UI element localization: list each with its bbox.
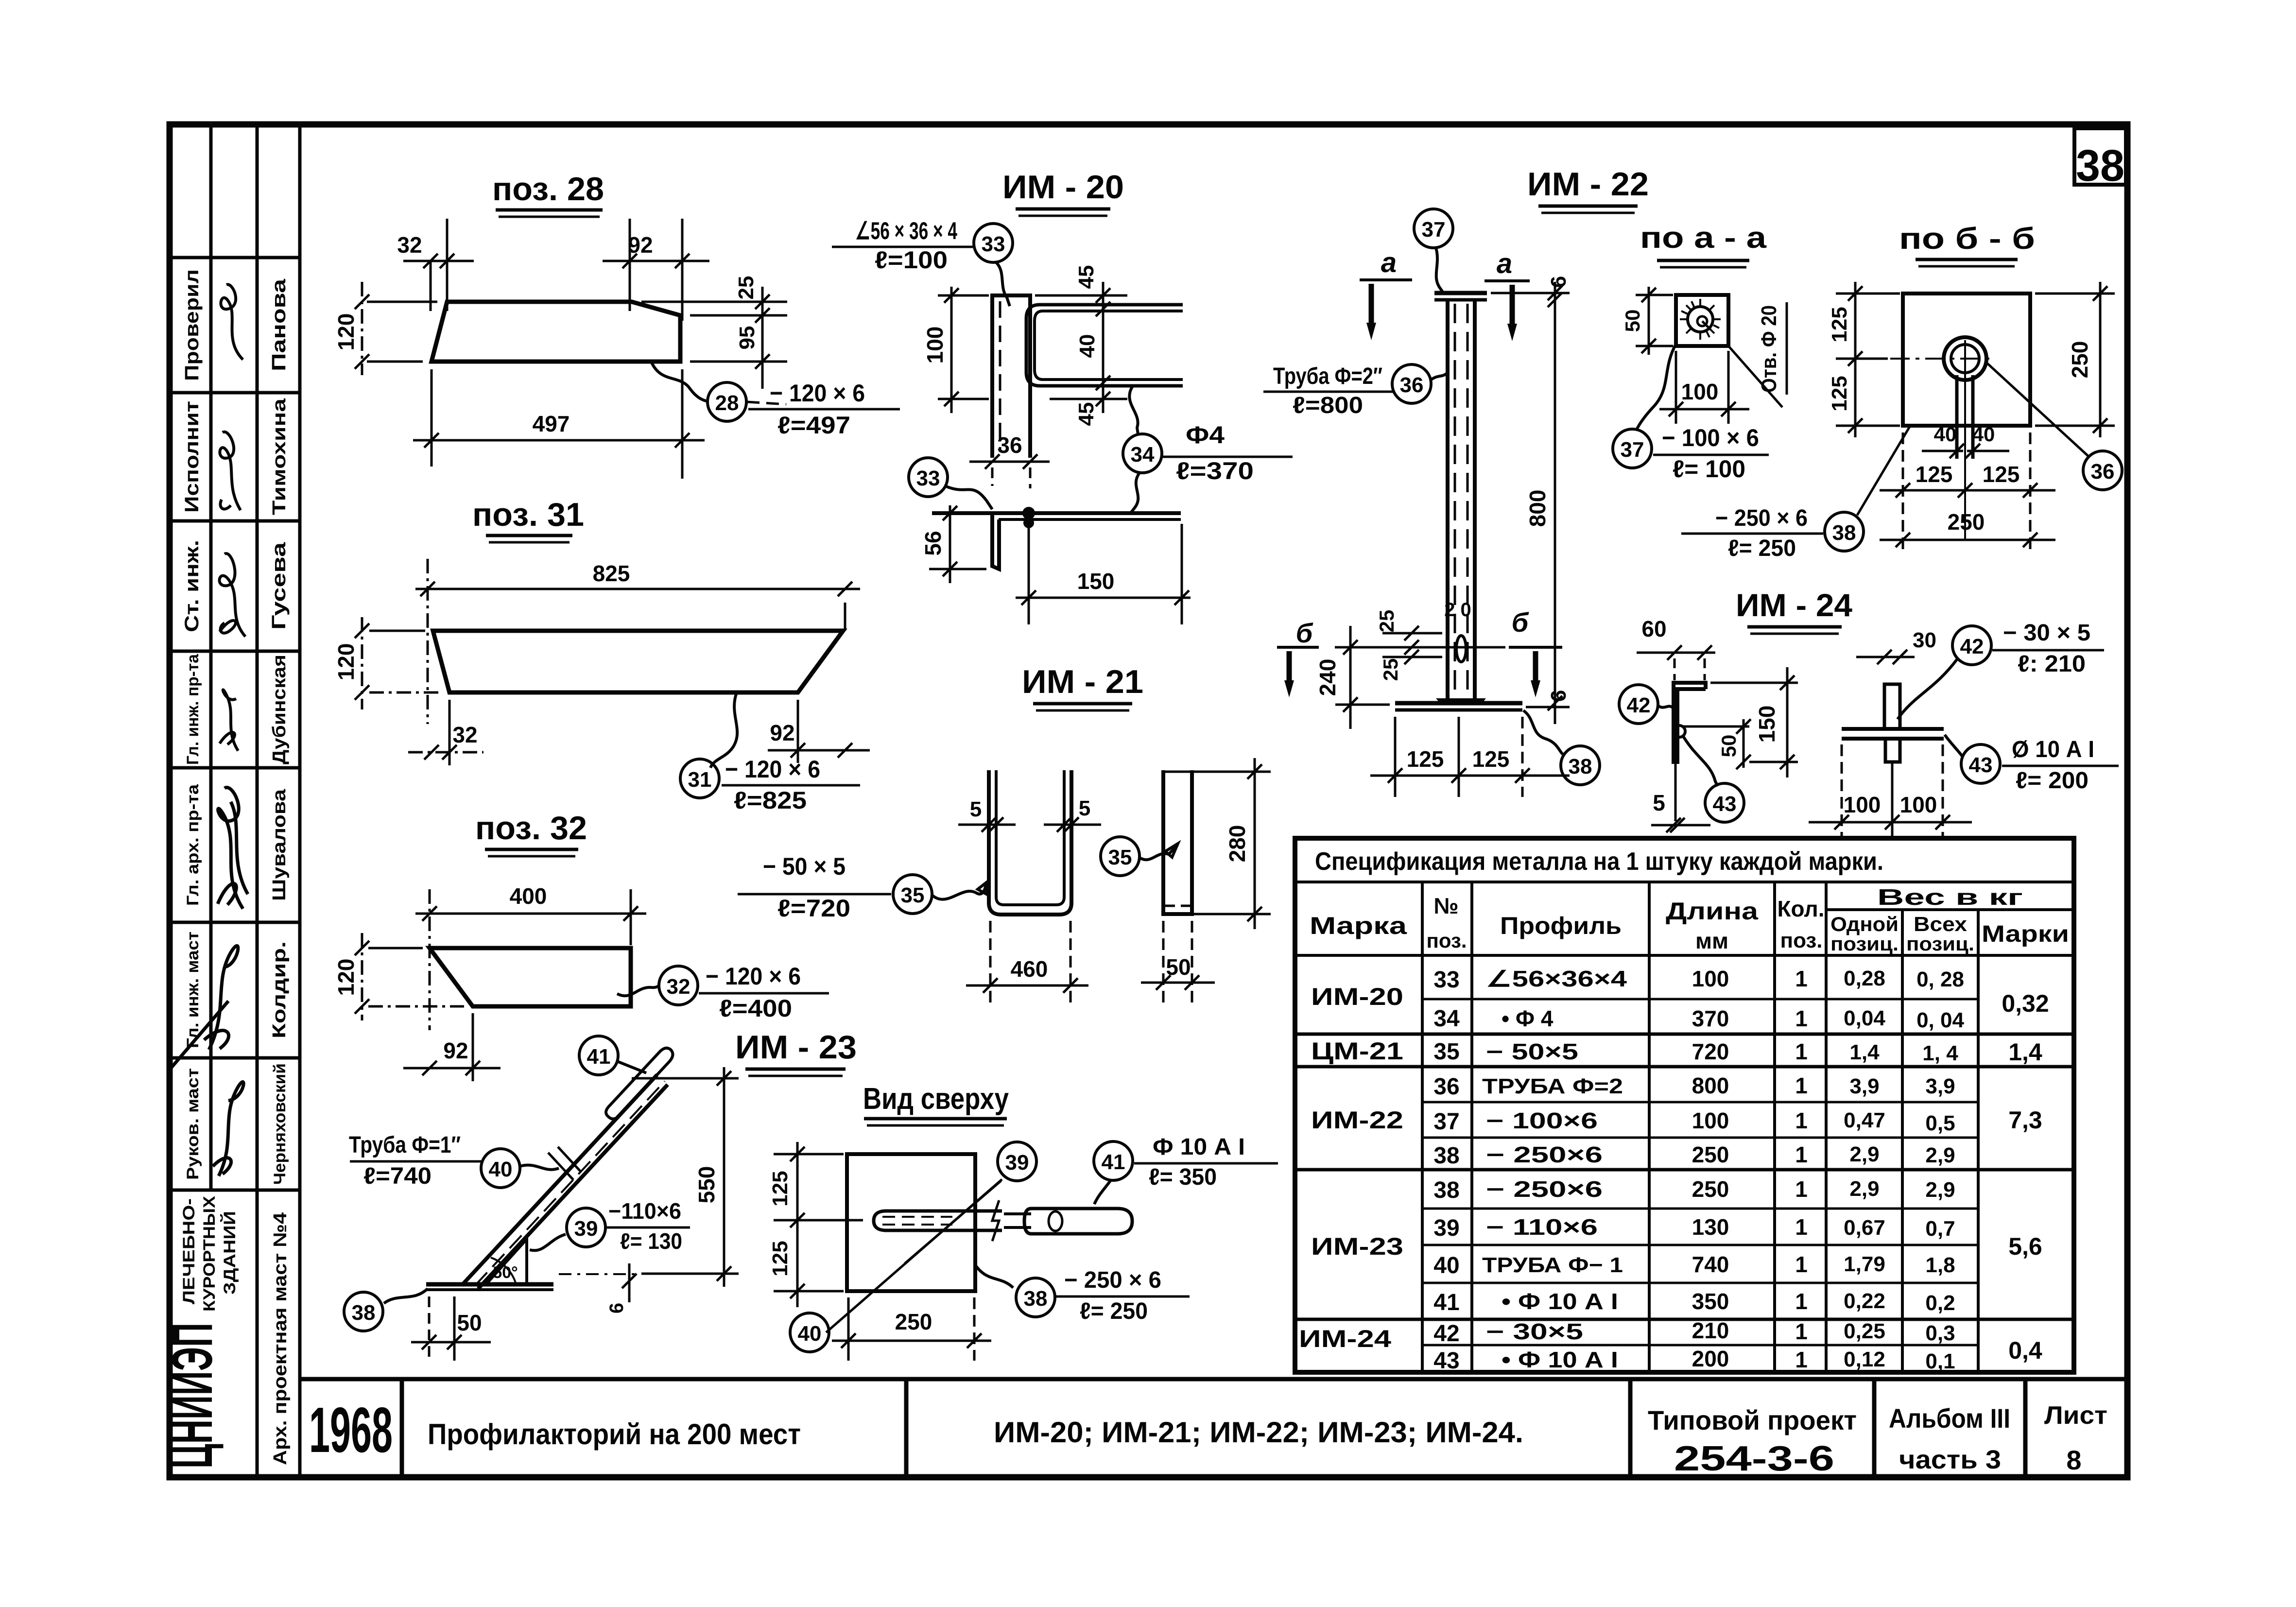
- svg-text:• Ф 4: • Ф 4: [1502, 1006, 1554, 1031]
- signature Тимохина: [220, 432, 241, 510]
- IM-24 callout 42 right with label: [1952, 626, 1991, 665]
- title block grid: [300, 1379, 2127, 1477]
- svg-text:25: 25: [1379, 658, 1402, 681]
- IM-23 callout 39 with label: [567, 1208, 605, 1247]
- svg-text:460: 460: [1011, 956, 1048, 982]
- signature Гусева: [220, 553, 245, 637]
- poz.28 plate outline: [432, 302, 680, 362]
- svg-text:100: 100: [1692, 966, 1729, 991]
- po b-b dim 250 right: [2099, 282, 2102, 437]
- svg-text:800: 800: [1692, 1073, 1729, 1098]
- svg-text:45: 45: [1074, 265, 1098, 289]
- svg-text:37: 37: [1433, 1109, 1459, 1135]
- svg-text:0,1: 0,1: [1925, 1349, 1955, 1373]
- svg-text:ТРУБА Ф=2: ТРУБА Ф=2: [1482, 1074, 1623, 1098]
- svg-text:часть 3: часть 3: [1899, 1445, 2001, 1474]
- svg-text:1: 1: [1795, 1108, 1808, 1133]
- svg-text:60: 60: [1641, 616, 1666, 641]
- svg-text:ℓ= 200: ℓ= 200: [2016, 768, 2089, 794]
- svg-text:120: 120: [333, 643, 359, 681]
- IM-24 weld dot and callout 43 left: [1674, 726, 1685, 737]
- svg-text:42: 42: [1433, 1321, 1459, 1347]
- svg-text:Альбом III: Альбом III: [1889, 1403, 2010, 1434]
- svg-text:ℓ= 130: ℓ= 130: [620, 1228, 682, 1254]
- IM-20 wire U (Ф4): [1026, 305, 1183, 386]
- signature: [170, 946, 238, 1069]
- svg-text:Длина: Длина: [1666, 898, 1759, 925]
- top view pipe: [884, 1210, 1002, 1213]
- IM-23 dim 550: [723, 1067, 725, 1287]
- svg-text:Марки: Марки: [1982, 921, 2069, 947]
- svg-text:1: 1: [1795, 1214, 1808, 1240]
- po b-b rod: [1955, 375, 1959, 459]
- svg-text:Ø 10 А I: Ø 10 А I: [2012, 737, 2094, 762]
- svg-text:40: 40: [489, 1158, 513, 1181]
- svg-text:Гусева: Гусева: [268, 542, 290, 630]
- svg-text:Марка: Марка: [1310, 912, 1408, 939]
- svg-text:250: 250: [895, 1309, 932, 1334]
- IM-20 callout 33 lower: [909, 458, 948, 497]
- pipe break marks: [992, 1200, 999, 1241]
- svg-text:ЛЕЧЕБНО-: ЛЕЧЕБНО-: [180, 1198, 198, 1304]
- svg-text:0, 04: 0, 04: [1916, 1008, 1964, 1032]
- poz.31 dim 120 left: [361, 617, 363, 709]
- svg-text:40: 40: [1972, 423, 1995, 446]
- svg-text:ЦНИИЭП: ЦНИИЭП: [160, 1323, 224, 1469]
- weld dot: [1022, 507, 1035, 519]
- svg-text:42: 42: [1960, 635, 1984, 658]
- svg-text:33: 33: [982, 232, 1005, 256]
- svg-text:ℓ= 100: ℓ= 100: [1673, 455, 1745, 483]
- svg-text:150: 150: [1077, 569, 1115, 594]
- svg-text:Панова: Панова: [268, 278, 290, 371]
- svg-text:125: 125: [1916, 462, 1953, 487]
- svg-text:50°: 50°: [493, 1263, 518, 1282]
- svg-text:Исполнит: Исполнит: [181, 401, 203, 513]
- top view dims 125/125 left: [796, 1142, 799, 1307]
- svg-text:34: 34: [1131, 443, 1155, 467]
- svg-text:0,3: 0,3: [1925, 1321, 1955, 1345]
- svg-text:39: 39: [1433, 1215, 1459, 1241]
- svg-text:43: 43: [1713, 792, 1737, 816]
- po a-a label Отв Ф20: [1728, 346, 1782, 407]
- svg-text:− 250 × 6: − 250 × 6: [1064, 1267, 1161, 1293]
- svg-text:Спецификация металла на 1: Спецификация металла на 1 штуку каждой м…: [1315, 847, 1883, 876]
- IM-23 rod 41 at top: [606, 1048, 673, 1119]
- svg-text:35: 35: [1108, 846, 1132, 869]
- svg-text:28: 28: [715, 391, 739, 415]
- svg-text:350: 350: [1692, 1289, 1729, 1314]
- svg-text:100: 100: [922, 327, 948, 364]
- IM-20 dim 56: [949, 505, 951, 583]
- svg-text:254-3-6: 254-3-6: [1674, 1439, 1834, 1478]
- svg-text:250: 250: [2067, 341, 2092, 379]
- svg-text:0,7: 0,7: [1925, 1217, 1955, 1241]
- svg-text:40: 40: [1075, 334, 1099, 358]
- svg-text:100: 100: [1681, 379, 1719, 404]
- svg-text:− 100 × 6: − 100 × 6: [1662, 424, 1759, 451]
- po b-b centerlines: [1890, 358, 1995, 360]
- svg-text:37: 37: [1621, 438, 1644, 462]
- top view leader diagonals: [826, 1179, 1002, 1332]
- svg-text:ℓ=825: ℓ=825: [734, 787, 807, 814]
- top view callout 40: [790, 1313, 829, 1352]
- svg-text:позиц.: позиц.: [1906, 933, 1974, 955]
- svg-text:240: 240: [1315, 659, 1340, 696]
- svg-text:35: 35: [901, 883, 925, 907]
- svg-text:1: 1: [1795, 1176, 1808, 1202]
- svg-text:25: 25: [734, 276, 758, 300]
- svg-text:1: 1: [1795, 1289, 1808, 1314]
- svg-text:по а - а: по а - а: [1640, 221, 1767, 255]
- svg-text:497: 497: [533, 411, 570, 436]
- svg-text:25: 25: [1375, 610, 1398, 633]
- svg-text:38: 38: [1433, 1177, 1459, 1203]
- svg-text:Ф4: Ф4: [1186, 421, 1225, 449]
- svg-text:№: №: [1433, 893, 1458, 918]
- svg-text:41: 41: [1102, 1150, 1125, 1174]
- poz.32 dim 120 left: [361, 933, 363, 1020]
- svg-text:5,6: 5,6: [2008, 1233, 2042, 1260]
- leader from 35 to channel: [932, 883, 989, 899]
- svg-text:ИМ-24: ИМ-24: [1299, 1325, 1391, 1352]
- svg-text:250: 250: [1692, 1142, 1729, 1167]
- svg-text:38: 38: [1832, 521, 1856, 545]
- po a-a weld circle with rays: [1688, 307, 1713, 332]
- svg-text:ℓ= 250: ℓ= 250: [1080, 1298, 1148, 1324]
- IM-23 angle 50deg: [491, 1258, 516, 1284]
- svg-text:б: б: [1512, 607, 1529, 638]
- svg-text:мм: мм: [1695, 928, 1728, 953]
- svg-text:1,4: 1,4: [2008, 1038, 2042, 1066]
- svg-text:0,25: 0,25: [1844, 1319, 1885, 1343]
- table row lines (partial): [1422, 999, 1978, 1345]
- poz.32 plate outline: [430, 948, 631, 1006]
- svg-text:Арх. проектная маст №4: Арх. проектная маст №4: [270, 1212, 291, 1465]
- specification table frame: [1295, 838, 2074, 1372]
- svg-text:7,3: 7,3: [2008, 1106, 2042, 1134]
- IM-22 top flange: [1434, 291, 1487, 295]
- top view callout 38 with label: [1016, 1278, 1055, 1317]
- svg-text:ИМ - 21: ИМ - 21: [1022, 663, 1143, 700]
- svg-text:120: 120: [333, 959, 359, 996]
- svg-text:125: 125: [1407, 746, 1444, 772]
- svg-text:− 50 × 5: − 50 × 5: [763, 853, 846, 880]
- svg-text:1, 4: 1, 4: [1922, 1041, 1958, 1065]
- svg-text:− 110×6: − 110×6: [1486, 1214, 1598, 1240]
- IM-21 plate side view: [1163, 770, 1192, 914]
- po b-b pipe section: [1944, 337, 1986, 380]
- svg-text:0,12: 0,12: [1844, 1348, 1885, 1371]
- svg-text:36: 36: [2091, 460, 2115, 484]
- svg-text:0,47: 0,47: [1844, 1108, 1885, 1132]
- svg-text:42: 42: [1627, 693, 1651, 717]
- svg-text:250: 250: [1692, 1176, 1729, 1202]
- svg-text:Черняховский: Черняховский: [271, 1063, 289, 1185]
- poz.32 callout 32: [617, 985, 659, 996]
- svg-text:Всех: Всех: [1914, 913, 1968, 935]
- svg-text:2,9: 2,9: [1925, 1178, 1955, 1202]
- svg-text:ЗДАНИЙ: ЗДАНИЙ: [220, 1211, 239, 1295]
- svg-text:125: 125: [1828, 307, 1851, 342]
- svg-text:Шувалова: Шувалова: [269, 789, 290, 901]
- svg-text:2,9: 2,9: [1849, 1142, 1879, 1166]
- svg-text:−110×6: −110×6: [608, 1198, 681, 1224]
- svg-text:0,28: 0,28: [1844, 967, 1885, 990]
- svg-text:− 250×6: − 250×6: [1486, 1176, 1603, 1202]
- svg-text:125: 125: [1983, 462, 2020, 487]
- svg-text:Гл. арх. пр-та: Гл. арх. пр-та: [184, 784, 202, 906]
- svg-text:ℓ= 350: ℓ= 350: [1149, 1164, 1217, 1190]
- svg-text:400: 400: [510, 883, 547, 909]
- svg-text:150: 150: [1754, 706, 1779, 743]
- left title strip grid: [170, 124, 300, 1477]
- svg-text:92: 92: [628, 232, 653, 258]
- svg-text:50: 50: [457, 1310, 482, 1335]
- IM-21 dim 280: [1162, 771, 1271, 773]
- poz.28 dim 120 left: [361, 282, 363, 375]
- svg-text:100: 100: [1692, 1108, 1729, 1133]
- svg-text:Профиль: Профиль: [1500, 912, 1622, 939]
- svg-text:ℓ=100: ℓ=100: [875, 246, 948, 274]
- svg-text:40: 40: [798, 1322, 822, 1346]
- svg-text:Руков. маст: Руков. маст: [184, 1068, 202, 1180]
- signature Дубинская: [220, 690, 238, 751]
- svg-text:740: 740: [1692, 1252, 1729, 1277]
- svg-text:125: 125: [768, 1241, 792, 1276]
- svg-text:210: 210: [1692, 1318, 1729, 1343]
- svg-text:100: 100: [1844, 792, 1881, 817]
- svg-text:33: 33: [916, 467, 940, 490]
- po a-a plate square: [1676, 295, 1728, 346]
- svg-text:Гл. инж. маст: Гл. инж. маст: [184, 932, 202, 1048]
- svg-text:Проверил: Проверил: [181, 269, 203, 381]
- svg-text:ИМ - 20: ИМ - 20: [1002, 169, 1124, 206]
- svg-text:0,4: 0,4: [2008, 1337, 2042, 1364]
- svg-text:1,4: 1,4: [1849, 1040, 1880, 1064]
- svg-text:38: 38: [2076, 141, 2124, 190]
- svg-text:ИМ - 24: ИМ - 24: [1736, 587, 1852, 623]
- svg-text:• Ф 10 А I: • Ф 10 А I: [1502, 1347, 1618, 1372]
- svg-text:ℓ=740: ℓ=740: [363, 1163, 432, 1189]
- svg-text:370: 370: [1692, 1006, 1729, 1031]
- svg-text:∠56 × 36 × 4: ∠56 × 36 × 4: [855, 217, 957, 244]
- svg-text:0,32: 0,32: [2002, 990, 2049, 1017]
- svg-text:Дубинская: Дубинская: [269, 655, 290, 764]
- IM-24 right view: bar cross: [1842, 727, 1944, 731]
- svg-text:а: а: [1381, 247, 1397, 278]
- svg-text:− 30×5: − 30×5: [1486, 1319, 1583, 1344]
- svg-text:Вес в кг: Вес в кг: [1877, 884, 2023, 910]
- svg-text:0,2: 0,2: [1925, 1291, 1955, 1315]
- IM-22 callout 38: [1561, 746, 1600, 785]
- svg-text:250: 250: [1948, 509, 1985, 535]
- signature: [213, 1082, 243, 1176]
- IM-23 gusset 39: [486, 1239, 527, 1284]
- top view callout 39: [998, 1142, 1036, 1181]
- svg-text:• Ф 10 А I: • Ф 10 А I: [1502, 1289, 1618, 1314]
- svg-text:39: 39: [574, 1217, 598, 1241]
- svg-text:92: 92: [770, 720, 794, 745]
- svg-text:3,9: 3,9: [1925, 1074, 1955, 1098]
- svg-text:поз. 32: поз. 32: [475, 810, 587, 847]
- svg-text:41: 41: [1433, 1290, 1459, 1315]
- svg-text:∠56×36×4: ∠56×36×4: [1486, 966, 1627, 991]
- svg-text:120: 120: [333, 313, 359, 351]
- IM-22 hole: [1456, 636, 1466, 662]
- svg-text:Ф 10 А I: Ф 10 А I: [1153, 1134, 1245, 1160]
- svg-text:ИМ-20; ИМ-21; ИМ-22; ИМ-23;: ИМ-20; ИМ-21; ИМ-22; ИМ-23; ИМ-24.: [994, 1416, 1523, 1449]
- svg-text:36: 36: [997, 432, 1022, 458]
- svg-text:ИМ - 23: ИМ - 23: [735, 1029, 857, 1066]
- po a-a dim 50 left: [1648, 287, 1650, 355]
- svg-text:ЦМ-21: ЦМ-21: [1311, 1037, 1403, 1065]
- svg-text:125: 125: [1472, 746, 1510, 772]
- sheet frame: [170, 124, 2127, 1477]
- svg-text:Колдир.: Колдир.: [269, 941, 290, 1038]
- svg-text:0, 28: 0, 28: [1916, 968, 1964, 991]
- IM-23 dim 6 plate thickness: [559, 1273, 637, 1275]
- IM-20 angle bar (edge view): [992, 295, 1030, 458]
- svg-text:39: 39: [1005, 1151, 1029, 1175]
- IM-23 weld hatch on pipe: [548, 1147, 581, 1180]
- svg-text:− 250×6: − 250×6: [1486, 1142, 1603, 1167]
- svg-text:92: 92: [443, 1038, 468, 1063]
- svg-text:550: 550: [694, 1166, 719, 1204]
- svg-text:41: 41: [587, 1045, 611, 1069]
- svg-text:43: 43: [1433, 1348, 1459, 1374]
- IM-22 callout 37 top: [1414, 209, 1453, 248]
- svg-text:45: 45: [1074, 402, 1098, 426]
- svg-text:Ст. инж.: Ст. инж.: [181, 540, 203, 632]
- svg-text:6: 6: [1547, 276, 1571, 288]
- svg-text:ℓ=800: ℓ=800: [1293, 393, 1363, 418]
- svg-text:5: 5: [1079, 796, 1090, 820]
- poz.28 dims 25 / 95 right: [641, 301, 787, 303]
- svg-text:0,67: 0,67: [1844, 1216, 1885, 1240]
- svg-text:40: 40: [1934, 423, 1957, 446]
- svg-text:32: 32: [667, 975, 691, 999]
- IM-24 dim 50: [1682, 726, 1749, 728]
- IM-24 left view plate: [1674, 683, 1706, 762]
- svg-text:95: 95: [735, 326, 759, 350]
- svg-text:2,9: 2,9: [1925, 1143, 1955, 1167]
- svg-text:0,22: 0,22: [1844, 1289, 1885, 1313]
- svg-text:2 0: 2 0: [1444, 599, 1471, 621]
- svg-text:КУРОРТНЫХ: КУРОРТНЫХ: [200, 1196, 219, 1312]
- svg-text:125: 125: [1828, 376, 1851, 411]
- svg-text:1: 1: [1795, 1319, 1808, 1344]
- svg-text:Гл. инж. пр-та: Гл. инж. пр-та: [184, 654, 202, 765]
- svg-text:38: 38: [1433, 1143, 1459, 1169]
- IM-24 dim 150: [1786, 667, 1789, 778]
- svg-text:130: 130: [1692, 1214, 1729, 1240]
- svg-text:Труба Ф=2″: Труба Ф=2″: [1273, 363, 1382, 389]
- svg-text:32: 32: [397, 232, 422, 258]
- svg-text:38: 38: [352, 1301, 376, 1325]
- IM-24 callout 43 right with label: [1961, 744, 2000, 783]
- svg-text:Лист: Лист: [2044, 1401, 2107, 1430]
- svg-text:3,9: 3,9: [1849, 1074, 1879, 1098]
- svg-text:б: б: [1296, 618, 1313, 648]
- svg-text:1: 1: [1795, 1252, 1808, 1277]
- IM-23 inclined pipe: [463, 1075, 657, 1284]
- svg-text:Профилакторий на 200 мест: Профилакторий на 200 мест: [428, 1418, 801, 1451]
- svg-text:34: 34: [1433, 1006, 1460, 1032]
- svg-text:ИМ-22: ИМ-22: [1311, 1106, 1403, 1134]
- svg-text:38: 38: [1024, 1287, 1048, 1311]
- svg-text:а: а: [1497, 248, 1512, 279]
- svg-text:6: 6: [606, 1303, 627, 1313]
- svg-text:− 100×6: − 100×6: [1486, 1108, 1598, 1133]
- IM-20 dims 45 / 40 / 45 right: [1035, 294, 1127, 297]
- svg-text:ИМ-23: ИМ-23: [1311, 1233, 1403, 1260]
- svg-text:38: 38: [1569, 755, 1592, 778]
- svg-text:5: 5: [970, 797, 982, 821]
- svg-text:2,9: 2,9: [1849, 1177, 1879, 1201]
- signature Шувалова: [218, 788, 248, 909]
- svg-text:0,04: 0,04: [1844, 1006, 1885, 1030]
- svg-text:31: 31: [688, 768, 712, 792]
- svg-text:720: 720: [1692, 1039, 1729, 1064]
- svg-text:36: 36: [1400, 373, 1424, 397]
- svg-text:ℓ=400: ℓ=400: [719, 995, 792, 1022]
- page number box 38: [2074, 128, 2126, 185]
- IM-23 callout 41: [579, 1036, 618, 1075]
- svg-text:1: 1: [1795, 1347, 1808, 1372]
- svg-text:1: 1: [1795, 1006, 1808, 1031]
- svg-text:Кол.: Кол.: [1777, 896, 1824, 921]
- svg-text:Типовой проект: Типовой проект: [1648, 1405, 1857, 1435]
- svg-text:поз.: поз.: [1426, 929, 1467, 952]
- po b-b callout 38 with label: [1825, 512, 1864, 551]
- svg-text:поз.: поз.: [1780, 929, 1823, 952]
- svg-text:1968: 1968: [309, 1394, 393, 1466]
- IM-20 dim 100 left: [950, 287, 953, 413]
- IM-21 callout 35: [1101, 837, 1139, 876]
- svg-text:50: 50: [1717, 735, 1740, 758]
- svg-text:100: 100: [1900, 792, 1937, 817]
- svg-text:− 120 × 6: − 120 × 6: [725, 756, 820, 783]
- IM-23 base plate: [426, 1282, 553, 1287]
- po b-b callout 36: [2083, 451, 2122, 490]
- top view plate square: [847, 1154, 975, 1291]
- svg-text:1: 1: [1795, 1142, 1808, 1167]
- svg-text:− 250 × 6: − 250 × 6: [1715, 505, 1808, 531]
- poz.31 plate outline: [433, 631, 843, 692]
- IM-22 bottom flange: [1395, 701, 1522, 706]
- svg-text:56: 56: [920, 531, 946, 555]
- IM-24 callout 42 left: [1619, 685, 1658, 724]
- svg-text:по б - б: по б - б: [1899, 222, 2035, 256]
- po b-b plate square: [1903, 294, 2030, 426]
- table group separator lines (full width): [1295, 1034, 2074, 1319]
- svg-text:ℓ= 250: ℓ= 250: [1728, 536, 1796, 561]
- svg-text:280: 280: [1225, 825, 1250, 863]
- top view callout 41 with label: [1094, 1141, 1133, 1180]
- svg-text:1: 1: [1795, 966, 1808, 991]
- signature Панова: [221, 285, 243, 360]
- svg-text:ТРУБА Ф− 1: ТРУБА Ф− 1: [1482, 1253, 1623, 1277]
- po a-a callout 37 with label: [1613, 429, 1652, 468]
- po b-b dims 125/125 left: [1854, 282, 1857, 437]
- svg-text:125: 125: [768, 1171, 792, 1206]
- svg-text:поз. 28: поз. 28: [492, 171, 604, 207]
- svg-text:1: 1: [1795, 1073, 1808, 1098]
- IM-22 dim 800 right: [1554, 282, 1556, 724]
- poz.28 callout 28: [651, 362, 708, 401]
- svg-text:ℓ=720: ℓ=720: [777, 895, 850, 922]
